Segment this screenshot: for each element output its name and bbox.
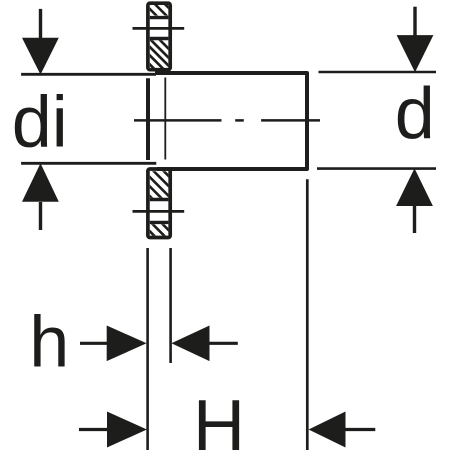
svg-text:d: d: [395, 74, 435, 154]
svg-text:h: h: [29, 302, 69, 382]
svg-text:H: H: [193, 386, 245, 450]
svg-text:di: di: [12, 83, 68, 163]
